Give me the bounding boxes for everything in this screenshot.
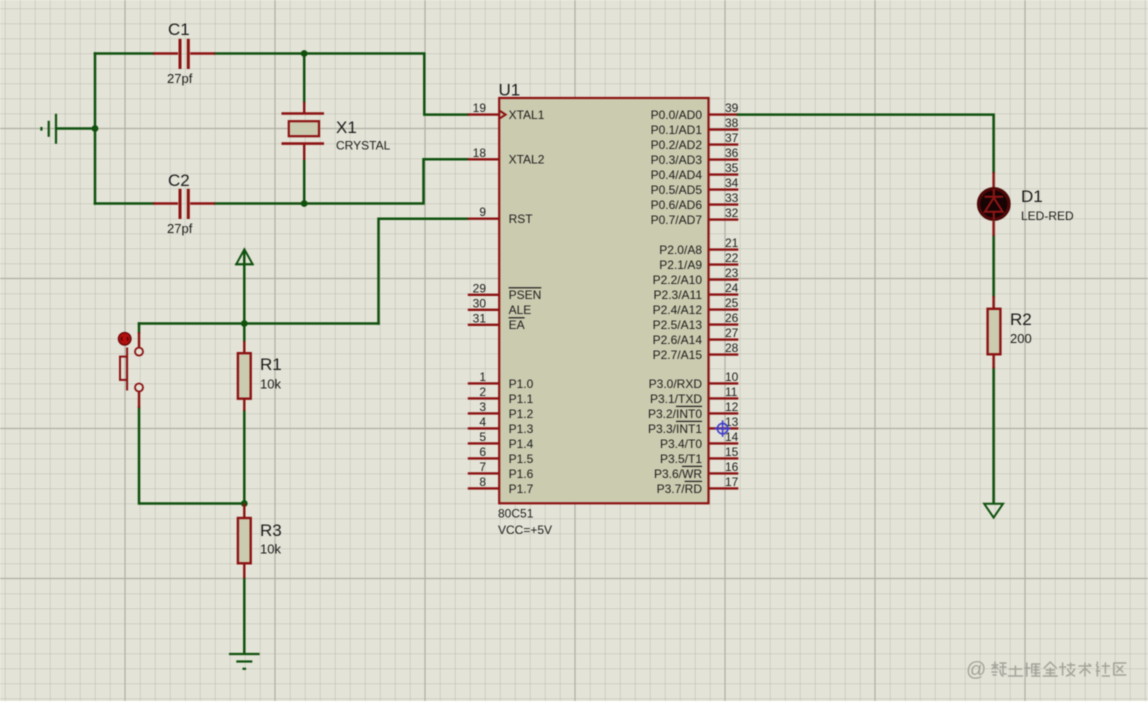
ground symbol left xyxy=(41,114,56,144)
svg-text:10k: 10k xyxy=(260,542,281,557)
svg-text:EA: EA xyxy=(509,318,525,332)
svg-text:27pf: 27pf xyxy=(167,221,193,236)
svg-text:32: 32 xyxy=(725,206,739,220)
label C1 refdes xyxy=(168,20,190,39)
U1 pin 29 (PSEN) left xyxy=(468,281,541,302)
svg-text:P2.5/A13: P2.5/A13 xyxy=(653,318,703,332)
svg-text:VCC=+5V: VCC=+5V xyxy=(498,523,552,537)
junction node crystal bottom xyxy=(301,200,308,207)
label R2 value 200 xyxy=(1010,331,1032,346)
svg-text:P3.1/TXD: P3.1/TXD xyxy=(650,392,702,406)
svg-text:30: 30 xyxy=(473,296,487,310)
LED D1 xyxy=(979,172,1009,236)
svg-text:R2: R2 xyxy=(1010,310,1032,329)
U1 pin 36 (P0.3/AD3) right xyxy=(651,146,739,167)
svg-text:P3.0/RXD: P3.0/RXD xyxy=(649,377,703,391)
wire net P0.0 to LED D1 xyxy=(738,115,993,172)
svg-text:RST: RST xyxy=(509,212,534,226)
svg-text:P1.2: P1.2 xyxy=(509,407,534,421)
wire R3 bottom to ground xyxy=(243,578,246,654)
U1 pin 9 (RST) left xyxy=(468,205,533,226)
svg-text:P3.2/INT0: P3.2/INT0 xyxy=(648,407,702,421)
U1 pin 5 (P1.4) left xyxy=(468,430,534,451)
svg-text:37: 37 xyxy=(725,131,739,145)
wire net XTAL2 bottom: left vertical to C2 xyxy=(95,202,153,205)
svg-text:C2: C2 xyxy=(168,171,190,190)
U1 pin 35 (P0.4/AD4) right xyxy=(651,161,739,182)
svg-text:8: 8 xyxy=(479,475,486,489)
svg-text:P0.3/AD3: P0.3/AD3 xyxy=(651,153,703,167)
svg-text:D1: D1 xyxy=(1021,187,1043,206)
U1 pin 38 (P0.1/AD1) right xyxy=(651,116,739,137)
U1 pin 2 (P1.1) left xyxy=(468,385,534,406)
svg-text:P3.5/T1: P3.5/T1 xyxy=(660,452,702,466)
wire left vertical C1-C2 xyxy=(94,54,97,204)
svg-text:PSEN: PSEN xyxy=(509,288,542,302)
U1 pin 26 (P2.5/A13) right xyxy=(653,311,739,332)
svg-text:XTAL1: XTAL1 xyxy=(509,108,545,122)
wire net XTAL2: C2 to U1 pin 18 xyxy=(215,159,468,203)
svg-text:3: 3 xyxy=(479,400,486,414)
svg-text:P2.1/A9: P2.1/A9 xyxy=(659,258,702,272)
wire net XTAL1 top: left vertical to C1 xyxy=(95,52,153,55)
U1 pin 31 (EA) left xyxy=(468,311,525,332)
svg-text:P0.5/AD5: P0.5/AD5 xyxy=(651,183,703,197)
svg-text:25: 25 xyxy=(725,296,739,310)
label R1 value 10k xyxy=(260,377,281,392)
U1 pin 37 (P0.2/AD2) right xyxy=(651,131,739,152)
U1 pin 21 (P2.0/A8) right xyxy=(659,236,738,257)
svg-text:5: 5 xyxy=(479,430,486,444)
svg-text:ALE: ALE xyxy=(509,303,532,317)
label R3 refdes xyxy=(260,521,282,540)
svg-text:@: @ xyxy=(966,659,986,681)
svg-text:P3.7/RD: P3.7/RD xyxy=(657,482,703,496)
label D1 refdes xyxy=(1021,187,1043,206)
svg-text:CRYSTAL: CRYSTAL xyxy=(336,139,391,153)
watermark @juejin community xyxy=(966,659,1126,681)
U1 pin 12 (P3.2/INT0) right xyxy=(648,400,739,421)
resistor R3 xyxy=(238,504,251,579)
U1 pin 1 (P1.0) left xyxy=(468,370,534,391)
svg-text:33: 33 xyxy=(725,191,739,205)
label C2 value 27pf xyxy=(167,221,193,236)
svg-text:1: 1 xyxy=(479,370,486,384)
resistor R2 xyxy=(988,296,1001,369)
U1 pin 16 (P3.6/WR) right xyxy=(654,460,739,481)
U1 XTAL1 clock input marker xyxy=(500,111,506,118)
svg-text:34: 34 xyxy=(725,176,739,190)
label C1 value 27pf xyxy=(167,71,193,86)
svg-text:19: 19 xyxy=(473,101,487,115)
U1 pin 33 (P0.6/AD6) right xyxy=(651,191,739,212)
svg-text:P0.1/AD1: P0.1/AD1 xyxy=(651,123,703,137)
wire net RST from U1 pin 9 xyxy=(379,219,469,324)
wire R1 bottom to node xyxy=(243,411,246,504)
junction node crystal top xyxy=(301,50,308,57)
label R1 refdes xyxy=(260,355,282,374)
capacitor C2 xyxy=(153,189,215,219)
svg-text:R3: R3 xyxy=(260,521,282,540)
U1 pin 28 (P2.7/A15) right xyxy=(653,341,739,362)
wire R2 to ground arrow xyxy=(992,369,995,504)
svg-text:R1: R1 xyxy=(260,355,282,374)
U1 pin 22 (P2.1/A9) right xyxy=(659,251,738,272)
svg-text:P3.4/T0: P3.4/T0 xyxy=(660,437,702,451)
ground arrow bottom right xyxy=(984,504,1003,518)
svg-text:29: 29 xyxy=(473,281,487,295)
resistor R1 xyxy=(238,341,251,411)
svg-text:15: 15 xyxy=(725,445,739,459)
blue crosshair cursor at pin 13 xyxy=(714,420,730,436)
svg-text:P2.2/A10: P2.2/A10 xyxy=(653,273,703,287)
svg-text:27pf: 27pf xyxy=(167,71,193,86)
capacitor C1 xyxy=(153,39,215,69)
svg-text:XTAL2: XTAL2 xyxy=(509,153,545,167)
U1 pin 11 (P3.1/TXD) right xyxy=(650,385,738,406)
wire net XTAL1: C1 to U1 pin 19 xyxy=(215,54,468,115)
IC U1 80C51 body xyxy=(499,98,708,503)
svg-text:26: 26 xyxy=(725,311,739,325)
svg-text:24: 24 xyxy=(725,281,739,295)
svg-text:P0.2/AD2: P0.2/AD2 xyxy=(651,138,703,152)
svg-text:P1.5: P1.5 xyxy=(509,452,534,466)
svg-text:10k: 10k xyxy=(260,377,281,392)
svg-text:23: 23 xyxy=(725,266,739,280)
svg-text:4: 4 xyxy=(479,415,486,429)
label U1 value 80C51 xyxy=(498,507,534,521)
U1 pin 18 (XTAL2) left xyxy=(468,146,545,167)
svg-text:11: 11 xyxy=(725,385,738,399)
svg-text:80C51: 80C51 xyxy=(498,507,534,521)
svg-text:31: 31 xyxy=(473,311,487,325)
wire button row horizontal xyxy=(139,322,379,325)
wire button bottom to R1/R3 node xyxy=(139,408,244,504)
svg-text:9: 9 xyxy=(479,205,486,219)
svg-text:38: 38 xyxy=(725,116,739,130)
svg-text:P2.7/A15: P2.7/A15 xyxy=(653,348,703,362)
U1 pin 34 (P0.5/AD5) right xyxy=(651,176,739,197)
U1 pin 7 (P1.6) left xyxy=(468,460,534,481)
svg-text:P2.6/A14: P2.6/A14 xyxy=(653,333,703,347)
U1 pin 13 (P3.3/INT1) right xyxy=(648,415,739,436)
svg-text:P1.1: P1.1 xyxy=(509,392,534,406)
U1 pin 24 (P2.3/A11) right xyxy=(654,281,739,302)
U1 pin 19 (XTAL1) left xyxy=(468,101,545,122)
ground symbol bottom xyxy=(229,654,260,669)
svg-text:P2.4/A12: P2.4/A12 xyxy=(653,303,703,317)
svg-text:P3.3/INT1: P3.3/INT1 xyxy=(648,422,702,436)
svg-text:22: 22 xyxy=(725,251,739,265)
label R3 value 10k xyxy=(260,542,281,557)
U1 pin 17 (P3.7/RD) right xyxy=(657,475,739,496)
svg-text:7: 7 xyxy=(479,460,486,474)
power symbol VCC arrow xyxy=(235,249,253,264)
svg-text:36: 36 xyxy=(725,146,739,160)
junction node R1/R3/button xyxy=(241,500,248,507)
U1 pin 8 (P1.7) left xyxy=(468,475,534,496)
label X1 value CRYSTAL xyxy=(336,139,391,153)
svg-text:12: 12 xyxy=(725,400,739,414)
svg-text:2: 2 xyxy=(479,385,486,399)
svg-text:16: 16 xyxy=(725,460,739,474)
svg-text:200: 200 xyxy=(1010,331,1032,346)
wire LED to R2 xyxy=(992,236,995,296)
svg-text:10: 10 xyxy=(725,370,739,384)
svg-text:P3.6/WR: P3.6/WR xyxy=(654,467,702,481)
svg-text:P2.3/A11: P2.3/A11 xyxy=(654,288,703,302)
svg-text:X1: X1 xyxy=(336,118,357,137)
svg-text:21: 21 xyxy=(725,236,739,250)
label C2 refdes xyxy=(168,171,190,190)
label X1 refdes xyxy=(336,118,357,137)
svg-text:P1.7: P1.7 xyxy=(509,482,534,496)
svg-text:35: 35 xyxy=(725,161,739,175)
svg-text:17: 17 xyxy=(725,475,739,489)
label D1 value LED-RED xyxy=(1021,209,1074,223)
label U1 refdes xyxy=(499,81,521,100)
U1 pin 25 (P2.4/A12) right xyxy=(653,296,739,317)
U1 pin 15 (P3.5/T1) right xyxy=(660,445,739,466)
svg-text:28: 28 xyxy=(725,341,739,355)
crystal X1 xyxy=(282,102,325,160)
U1 pin 27 (P2.6/A14) right xyxy=(653,326,739,347)
U1 pin 39 (P0.0/AD0) right xyxy=(651,101,739,122)
svg-text:P0.0/AD0: P0.0/AD0 xyxy=(651,108,703,122)
svg-text:P1.0: P1.0 xyxy=(509,377,534,391)
label R2 refdes xyxy=(1010,310,1032,329)
svg-text:P1.3: P1.3 xyxy=(509,422,534,436)
svg-text:P2.0/A8: P2.0/A8 xyxy=(659,243,702,257)
U1 pin 4 (P1.3) left xyxy=(468,415,534,436)
svg-text:LED-RED: LED-RED xyxy=(1021,209,1074,223)
svg-text:C1: C1 xyxy=(168,20,190,39)
junction node at ground tap xyxy=(92,125,99,132)
svg-text:39: 39 xyxy=(725,101,739,115)
wire ground to left vertical xyxy=(57,127,95,130)
svg-text:6: 6 xyxy=(479,445,486,459)
label U1 text VCC=+5V xyxy=(498,523,552,537)
U1 pin 14 (P3.4/T0) right xyxy=(660,430,739,451)
U1 pin 32 (P0.7/AD7) right xyxy=(651,206,739,227)
U1 pin 30 (ALE) left xyxy=(468,296,531,317)
wire crystal bottom branch xyxy=(303,160,306,204)
junction node VCC/R1/button xyxy=(241,320,248,327)
svg-text:P1.4: P1.4 xyxy=(509,437,534,451)
svg-text:U1: U1 xyxy=(499,81,521,100)
svg-text:P0.4/AD4: P0.4/AD4 xyxy=(651,168,703,182)
U1 pin 10 (P3.0/RXD) right xyxy=(649,370,739,391)
wire crystal top branch xyxy=(303,54,306,103)
U1 pin 6 (P1.5) left xyxy=(468,445,534,466)
svg-text:P0.6/AD6: P0.6/AD6 xyxy=(651,198,703,212)
svg-text:18: 18 xyxy=(473,146,487,160)
U1 pin 3 (P1.2) left xyxy=(468,400,534,421)
push button switch xyxy=(119,332,144,408)
wire VCC arrow to R1 top xyxy=(243,251,246,341)
svg-text:27: 27 xyxy=(725,326,739,340)
U1 pin 23 (P2.2/A10) right xyxy=(653,266,739,287)
wire button top stub xyxy=(138,324,141,333)
svg-text:P0.7/AD7: P0.7/AD7 xyxy=(651,213,703,227)
svg-text:P1.6: P1.6 xyxy=(509,467,534,481)
